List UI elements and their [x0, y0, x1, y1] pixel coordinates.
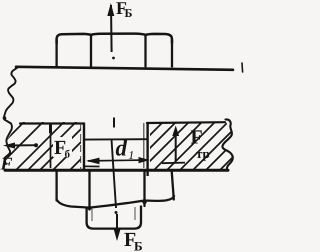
short line under F_tr	[162, 162, 185, 165]
svg-text:d: d	[116, 136, 128, 161]
force F_B arrow (down, at bottom)	[116, 214, 118, 233]
friction force arrow (up) at interface	[175, 130, 177, 161]
thread root lines on bolt end	[91, 208, 93, 221]
break line (wavy) right edge of lower plate	[222, 119, 232, 169]
white pocket for label	[53, 137, 72, 157]
svg-text:1: 1	[128, 148, 134, 162]
ink smear under left arrowhead	[83, 165, 100, 167]
node: axis dot under head	[112, 57, 115, 60]
ink blobs at nut facet corners	[88, 206, 92, 210]
break line (freehand zigzag) left edge of plates	[4, 68, 18, 165]
top edge of lower plate, left segment	[20, 122, 84, 124]
bolt shank left edge (bold)	[83, 123, 85, 171]
bolt head (hex, top)	[57, 34, 172, 67]
extension line at left with F_B label	[50, 124, 52, 168]
top edge of lower plate, right segment	[147, 121, 225, 124]
wire: axis dash in upper plate	[113, 118, 115, 128]
node: axis dot below nut	[115, 211, 118, 214]
svg-text:F: F	[0, 154, 13, 174]
svg-text:б: б	[65, 149, 71, 161]
dimension line d1 with arrowheads	[88, 159, 148, 162]
ink blob on break line	[3, 116, 7, 120]
wire: bolt axis center line (top arrow shaft F_B up)	[110, 5, 113, 52]
svg-text:Б: Б	[125, 6, 133, 20]
hole edge right (thin)	[143, 123, 145, 168]
svg-text:Б: Б	[134, 239, 143, 252]
hole edge left (thin)	[80, 123, 82, 170]
bolt threaded end below nut	[87, 206, 141, 229]
svg-text:тр: тр	[196, 146, 210, 161]
thread runout line across shank	[84, 138, 147, 140]
force F arrow at left (pointing left)	[8, 144, 37, 146]
nut (hex, bottom)	[57, 171, 174, 210]
broken line tick at right	[241, 63, 244, 72]
upper plate top surface line	[16, 67, 233, 70]
bolt shank right edge (bold)	[146, 123, 148, 177]
bottom surface of plates	[5, 169, 228, 172]
hatching of left plate	[0, 0, 240, 240]
wire: bolt axis through lower plate and nut	[112, 140, 117, 209]
arrowhead of force F_B (up, at top)	[107, 3, 114, 16]
